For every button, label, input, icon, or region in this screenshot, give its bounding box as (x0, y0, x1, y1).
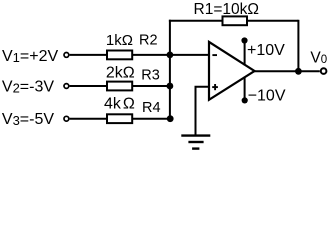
svg-text:V3=-5V: V3=-5V (2, 111, 54, 128)
feedback top wire (169, 20, 299, 22)
svg-text:R4: R4 (142, 100, 161, 116)
feedback right vertical wire (297, 20, 299, 72)
svg-text:V2=-3V: V2=-3V (2, 78, 54, 95)
terminal V1 (64, 53, 69, 58)
op-amp U1 triangle (209, 42, 255, 100)
junction dot node/R2 (167, 52, 174, 59)
svg-text:R1=10kΩ: R1=10kΩ (194, 1, 259, 18)
svg-text:1kΩ: 1kΩ (106, 32, 133, 49)
junction dot node/R3 (167, 83, 174, 90)
op-amp minus sign (212, 54, 217, 56)
resistor R2 body (107, 51, 132, 60)
output wire (253, 70, 320, 72)
ground bar 2 (188, 141, 203, 143)
output junction dot (295, 68, 302, 75)
op-amp plus sign (212, 86, 218, 88)
wire R2 to node (132, 54, 170, 56)
svg-text:R3: R3 (141, 68, 160, 84)
-10V supply dot (242, 97, 248, 103)
junction dot node/R4 (167, 115, 174, 122)
+10V supply dot (241, 37, 247, 43)
output terminal V0 (321, 68, 327, 74)
wire V3 to R4 (70, 118, 108, 120)
terminal V3 (64, 116, 69, 121)
svg-text:+10V: +10V (247, 42, 285, 59)
resistor R3 body (107, 82, 132, 91)
svg-text:4kΩ: 4kΩ (104, 96, 135, 113)
non-inverting input wire to ground (196, 87, 210, 136)
svg-text:−10V: −10V (248, 88, 286, 105)
terminal V2 (64, 84, 69, 89)
ground bar 1 (181, 134, 210, 136)
resistor R4 body (107, 114, 132, 123)
summing node vertical wire (169, 20, 171, 119)
ground bar 3 (192, 147, 199, 149)
-10V supply stub (244, 77, 246, 101)
wire R3 to node (132, 85, 170, 87)
+10V supply stub (244, 41, 246, 66)
svg-text:V1=+2V: V1=+2V (2, 48, 58, 65)
wire R4 to node (132, 118, 170, 120)
wire node to inverting input (170, 54, 209, 56)
svg-text:R2: R2 (139, 33, 158, 49)
svg-text:2kΩ: 2kΩ (106, 65, 135, 82)
resistor R1 body (223, 16, 248, 25)
wire V2 to R3 (70, 85, 108, 87)
wire V1 to R2 (70, 54, 108, 56)
